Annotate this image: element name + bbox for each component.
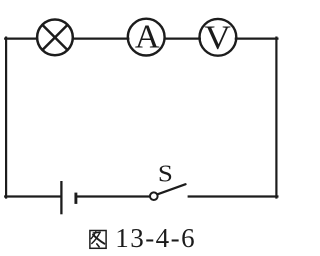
- wire: bottom-left corner to battery: [5, 195, 60, 197]
- wire: lamp to ammeter: [73, 37, 128, 39]
- svg-text:A: A: [135, 19, 160, 56]
- wire: battery to switch: [77, 195, 149, 197]
- caption text 13-4-6: [115, 223, 196, 253]
- lamp L (circle with cross): [37, 20, 73, 56]
- wire: top, corner to lamp: [5, 37, 37, 39]
- caption character 图 (drawn): [90, 231, 106, 249]
- battery cell: long plate (+): [60, 181, 62, 214]
- switch S: blade: [158, 184, 186, 194]
- battery cell: short plate (-): [74, 193, 77, 204]
- svg-text:S: S: [158, 160, 173, 188]
- voltmeter V: [200, 18, 237, 56]
- svg-text:V: V: [204, 18, 231, 56]
- wire: right vertical side: [275, 38, 277, 198]
- switch S: pivot circle: [150, 192, 158, 200]
- wire: left vertical side: [5, 38, 7, 198]
- svg-text:13-4-6: 13-4-6: [115, 223, 196, 253]
- ammeter A: [128, 19, 165, 56]
- label S: [158, 160, 173, 188]
- wire: voltmeter to top-right corner: [236, 37, 278, 39]
- wire: switch to bottom-right corner: [189, 195, 278, 197]
- wire: ammeter to voltmeter: [165, 37, 200, 39]
